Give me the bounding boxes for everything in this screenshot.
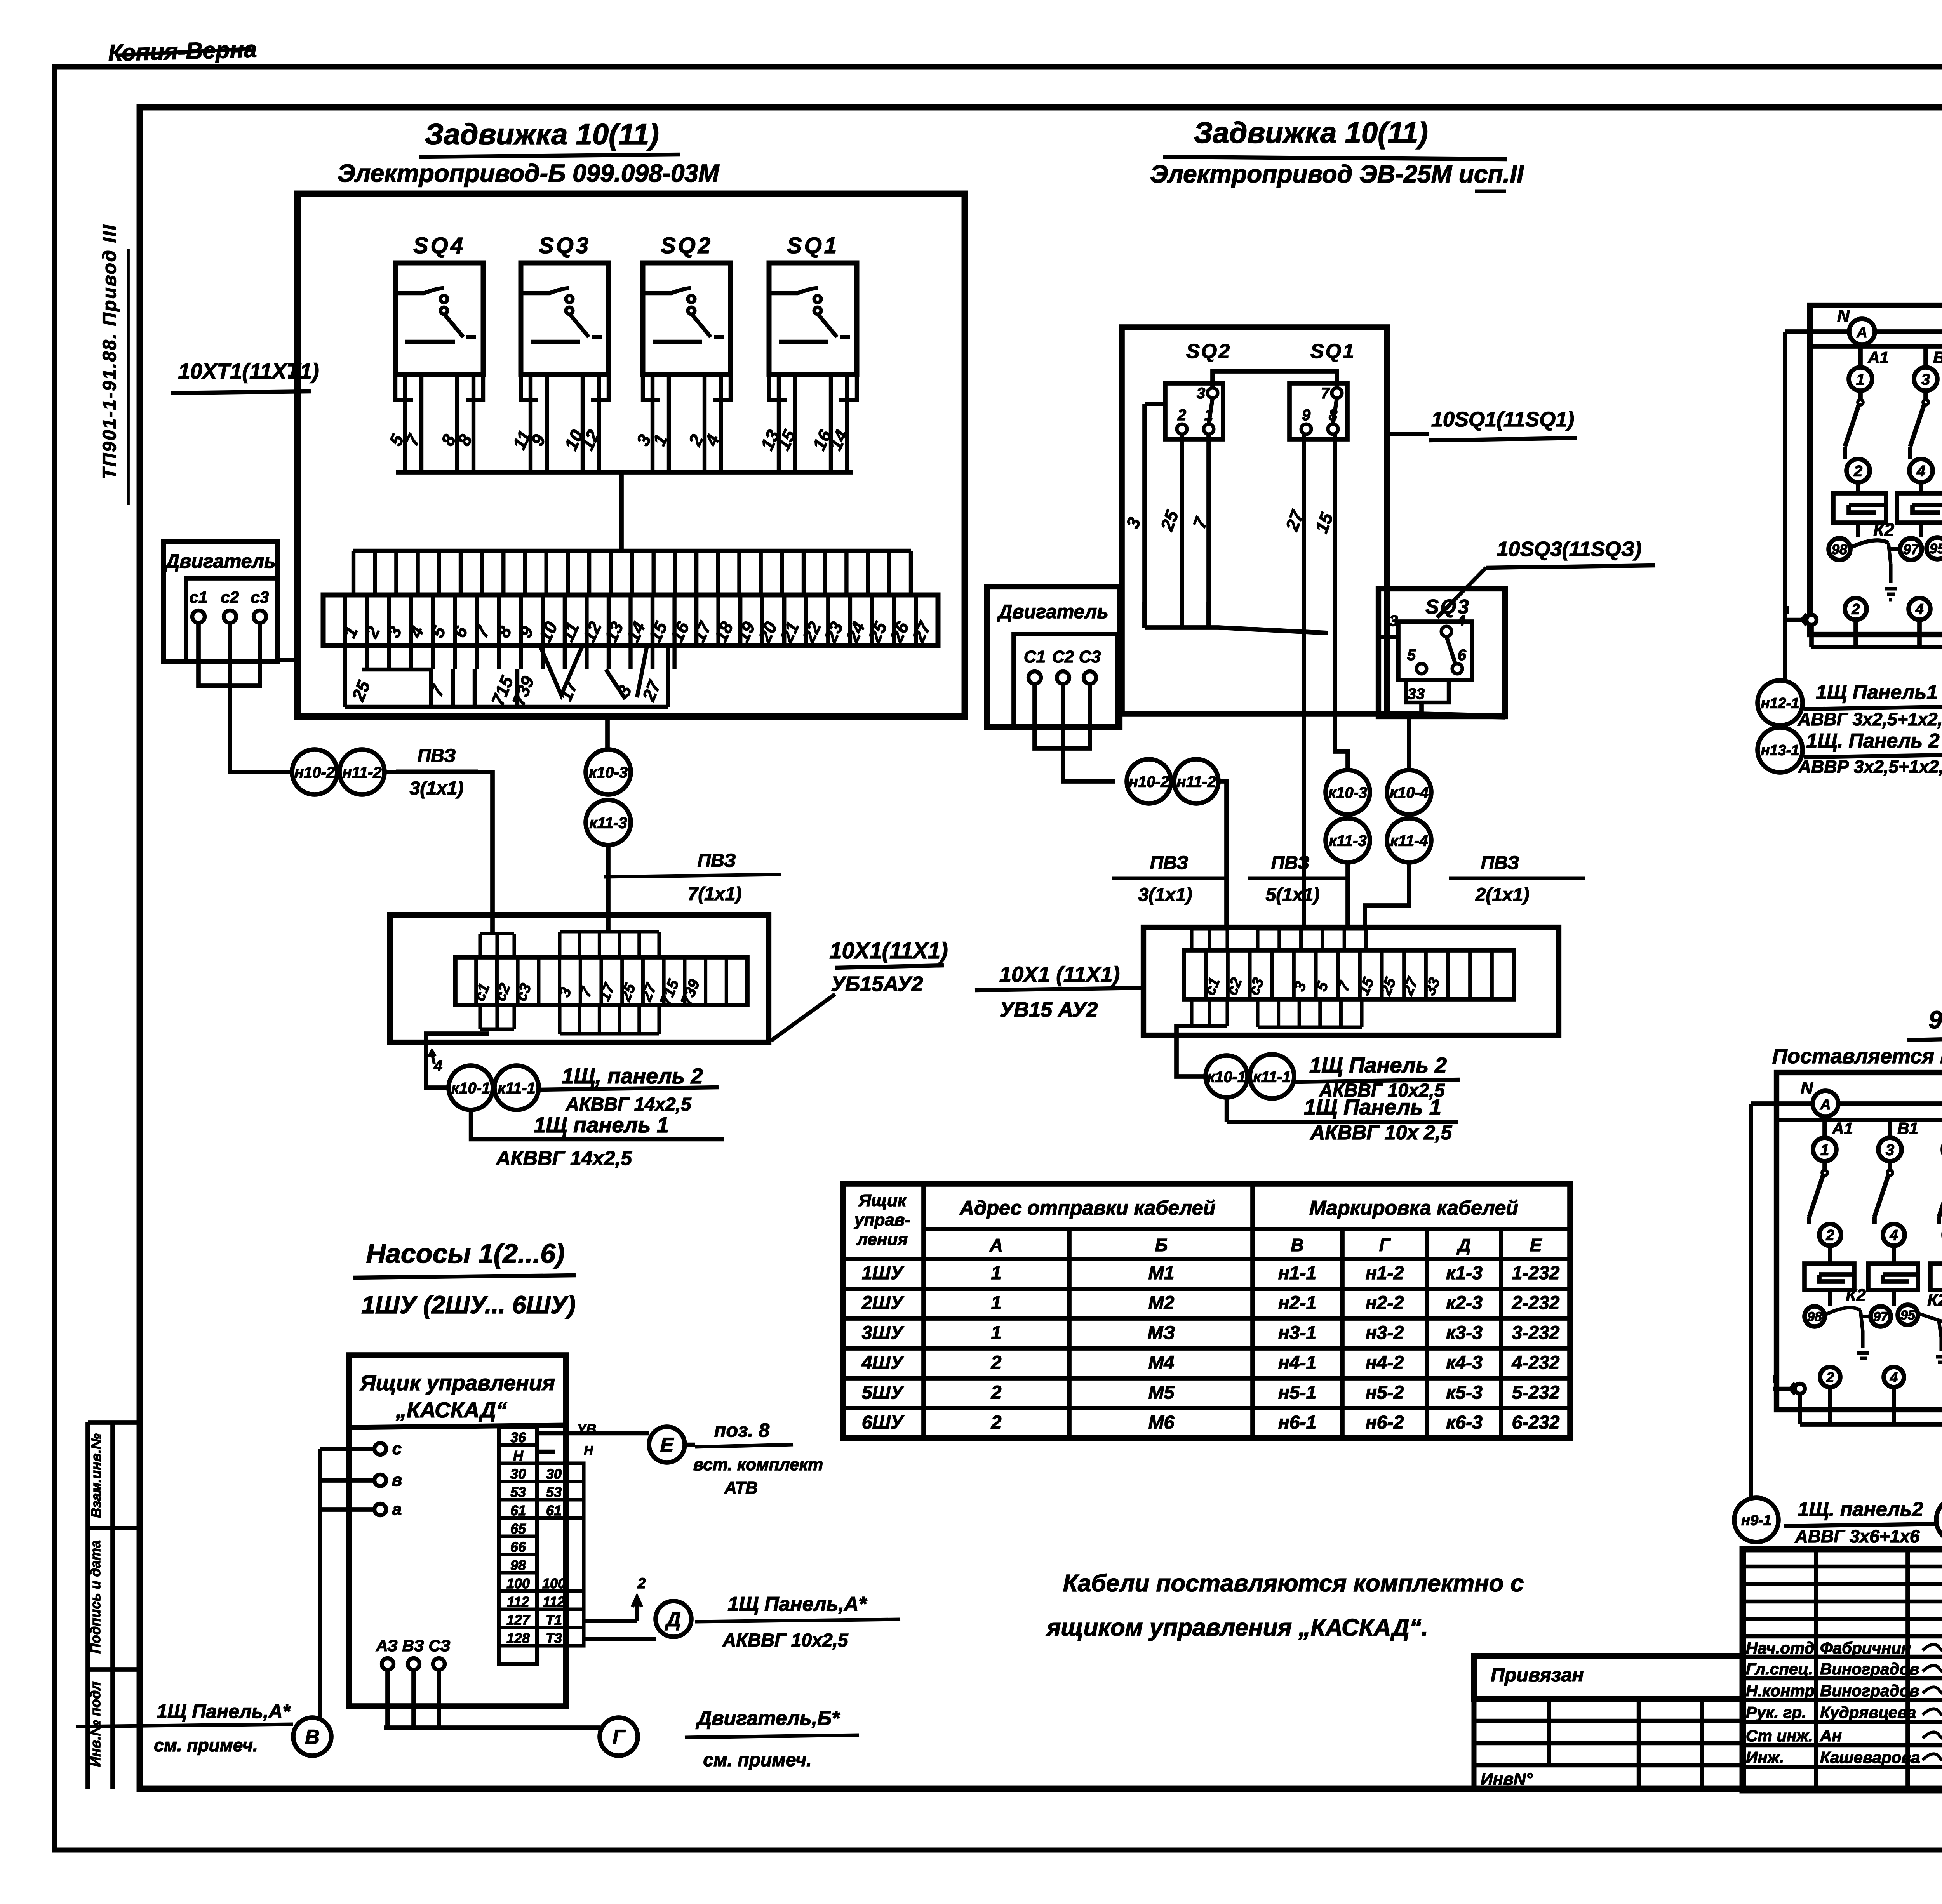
svg-text:2: 2	[1826, 1369, 1834, 1385]
motor wires c1 c2 c3	[198, 623, 292, 772]
N bus wire	[1785, 332, 1942, 414]
ground symbol	[1785, 606, 1807, 625]
terminal column inside КАСКАД	[499, 1427, 537, 1664]
upper stubs A (s2)	[1192, 929, 1227, 950]
svg-text:95: 95	[1900, 1308, 1916, 1323]
svg-text:53: 53	[546, 1484, 562, 1500]
svg-text:SQ1: SQ1	[787, 233, 839, 258]
svg-text:112: 112	[543, 1594, 565, 1610]
svg-text:Д: Д	[1456, 1235, 1470, 1255]
svg-text:н5-1: н5-1	[1278, 1382, 1316, 1403]
svg-text:1Щ, панель 2: 1Щ, панель 2	[562, 1064, 703, 1088]
svg-text:100: 100	[542, 1575, 566, 1591]
svg-text:9 КМ1: 9 КМ1	[1928, 1006, 1942, 1034]
svg-text:3: 3	[1921, 371, 1930, 388]
cable marker к11-1 (s2)	[1250, 1054, 1294, 1099]
svg-text:3ШУ: 3ШУ	[862, 1323, 905, 1343]
svg-text:с1: с1	[190, 588, 208, 606]
terminal 3 (9)	[1878, 1138, 1902, 1161]
svg-text:10Х1 (11Х1): 10Х1 (11Х1)	[999, 962, 1120, 986]
terminal 1 phase А1	[1849, 367, 1872, 391]
svg-text:к11-1: к11-1	[1253, 1068, 1291, 1085]
control box КАСКАД	[349, 1355, 566, 1706]
svg-text:к3-3: к3-3	[1446, 1323, 1483, 1343]
strip inside 10Х1 (section 1)	[455, 957, 747, 1007]
wire N down to н12-1	[1783, 332, 1787, 680]
svg-text:В: В	[305, 1726, 320, 1749]
svg-text:5(1х1): 5(1х1)	[1266, 885, 1320, 905]
svg-text:с: с	[392, 1439, 402, 1458]
svg-text:Н: Н	[584, 1443, 593, 1457]
svg-text:10Х1(11Х1): 10Х1(11Х1)	[829, 938, 948, 963]
svg-text:7(1х1): 7(1х1)	[688, 884, 742, 904]
limit switch SQ4	[385, 233, 483, 472]
svg-text:Н.контр.: Н.контр.	[1746, 1681, 1819, 1700]
svg-text:1Щ Панель 2: 1Щ Панель 2	[1309, 1053, 1447, 1077]
svg-text:1Щ Панель 1: 1Щ Панель 1	[1304, 1095, 1441, 1119]
svg-text:н10-2: н10-2	[294, 764, 335, 781]
cable marker к10-1 (s2)	[1206, 1055, 1248, 1097]
bridge wire SQ2 pin3 to SQ1 pin7	[1213, 371, 1337, 388]
svg-text:В: В	[1291, 1235, 1303, 1255]
contactor main contacts (slashes)	[1845, 391, 1860, 459]
svg-text:2(1х1): 2(1х1)	[1475, 885, 1530, 905]
svg-text:Ящик: Ящик	[858, 1191, 907, 1210]
cable marker н11-2	[339, 749, 385, 795]
svg-text:н4-1: н4-1	[1278, 1353, 1316, 1373]
terminal 4 bottom (9)	[1884, 1367, 1904, 1387]
svg-text:н11-2: н11-2	[342, 764, 381, 781]
wires SQ pins down	[1145, 404, 1209, 628]
wires to к circles and strip	[1304, 434, 1348, 929]
wire to В	[318, 1449, 322, 1718]
svg-text:Фабричнин: Фабричнин	[1820, 1639, 1911, 1657]
svg-text:Т1: Т1	[546, 1612, 562, 1628]
svg-text:АВВГ 3х6+1х6: АВВГ 3х6+1х6	[1794, 1526, 1919, 1546]
lower stubs A (s2)	[1192, 999, 1227, 1026]
terminal 1 (9)	[1813, 1138, 1836, 1161]
svg-text:1ШУ: 1ШУ	[862, 1263, 905, 1283]
svg-text:2: 2	[637, 1575, 646, 1592]
svg-text:к11-3: к11-3	[589, 814, 627, 831]
svg-text:2-232: 2-232	[1512, 1293, 1560, 1313]
cable marker н10-2	[292, 749, 337, 795]
svg-text:к10-1: к10-1	[451, 1080, 490, 1097]
svg-text:Адрес отправки кабелей: Адрес отправки кабелей	[959, 1197, 1216, 1219]
svg-text:SQ4: SQ4	[413, 233, 465, 258]
svg-text:3(1х1): 3(1х1)	[1138, 885, 1192, 905]
svg-text:4-232: 4-232	[1512, 1353, 1560, 1373]
svg-text:н3-2: н3-2	[1366, 1323, 1404, 1343]
limit switch SQ1	[757, 233, 857, 472]
margin column boxes	[85, 1422, 90, 1789]
phase bus 9	[1777, 1120, 1942, 1138]
svg-text:АВВР 3х2,5+1х2,5: АВВР 3х2,5+1х2,5	[1798, 756, 1942, 777]
cable marker к10-3	[586, 749, 631, 795]
cable marker н9-1	[1734, 1498, 1778, 1542]
svg-text:н4-2: н4-2	[1366, 1353, 1404, 1373]
svg-text:к11-4: к11-4	[1390, 832, 1428, 849]
lower stubs A	[480, 1005, 514, 1029]
svg-text:36: 36	[510, 1429, 526, 1445]
wire bus under SQ units	[396, 470, 853, 475]
svg-text:С2: С2	[1052, 647, 1074, 666]
enclosure box ЭВ-25М	[1122, 327, 1387, 714]
svg-text:Кабели поставляются комплект: Кабели поставляются комплектно с	[1063, 1570, 1524, 1597]
limit switch SQ2 (section 2)	[1165, 340, 1231, 439]
svg-text:SQ1: SQ1	[1310, 340, 1356, 363]
cable marker к11-1	[494, 1066, 539, 1110]
svg-text:61: 61	[510, 1502, 526, 1518]
lower stubs B (s2)	[1258, 999, 1362, 1027]
wire strip to к10-1 (s2)	[1176, 1026, 1206, 1076]
svg-text:6ШУ: 6ШУ	[862, 1412, 905, 1433]
svg-text:3(1х1): 3(1х1)	[410, 778, 464, 799]
svg-text:см. примеч.: см. примеч.	[154, 1735, 258, 1755]
cable marker к11-4 (s2)	[1387, 818, 1431, 862]
svg-text:к10-1: к10-1	[1207, 1068, 1246, 1085]
svg-text:Г: Г	[613, 1726, 626, 1749]
svg-text:10SQ1(11SQ1): 10SQ1(11SQ1)	[1431, 408, 1574, 431]
svg-text:1: 1	[991, 1323, 1002, 1343]
wires н/к circles to strip (s2)	[1218, 781, 1409, 929]
svg-text:65: 65	[510, 1521, 526, 1537]
svg-text:Подпись и дата: Подпись и дата	[87, 1540, 103, 1654]
svg-text:Инв.№ подл: Инв.№ подл	[87, 1681, 103, 1767]
underline of code	[127, 249, 130, 505]
svg-text:3: 3	[1197, 385, 1205, 402]
svg-text:1: 1	[991, 1293, 1002, 1313]
svg-text:к10-3: к10-3	[1328, 784, 1367, 801]
svg-text:поз. 8: поз. 8	[714, 1419, 769, 1441]
svg-text:1Щ Панель,А*: 1Щ Панель,А*	[727, 1593, 867, 1615]
К2 actuator dash	[1885, 543, 1897, 600]
wire motor box to enclosure	[277, 658, 298, 662]
svg-text:ТП901-1-91.88. Привод III: ТП901-1-91.88. Привод III	[99, 224, 120, 479]
svg-text:н1-2: н1-2	[1366, 1263, 1404, 1283]
motor wires (section 2)	[1035, 684, 1115, 781]
svg-text:с3: с3	[251, 588, 269, 606]
svg-text:1ШУ (2ШУ... 6ШУ): 1ШУ (2ШУ... 6ШУ)	[361, 1291, 576, 1319]
svg-text:А: А	[1820, 1097, 1831, 1113]
svg-text:вст. комплект: вст. комплект	[693, 1455, 823, 1474]
svg-text:А1: А1	[1867, 348, 1889, 367]
leader 10SQ3	[1437, 568, 1486, 617]
wire box to к10-3	[605, 716, 610, 749]
svg-text:SQ2: SQ2	[661, 233, 713, 258]
svg-text:128: 128	[506, 1630, 530, 1646]
title block	[1743, 1549, 1942, 1790]
bottom bus	[1811, 620, 1942, 687]
terminal box 10Х1(11Х1) (section 2)	[1143, 927, 1559, 1035]
cable routing table	[843, 1184, 1570, 1438]
svg-text:1Щ панель 1: 1Щ панель 1	[534, 1113, 669, 1137]
contactor enclosure 9КМ1	[1777, 1073, 1942, 1410]
svg-text:к10-3: к10-3	[589, 764, 628, 781]
terminal 3 phase В1	[1914, 367, 1937, 391]
svg-text:Е: Е	[1530, 1235, 1542, 1255]
svg-text:Д: Д	[665, 1608, 681, 1631]
svg-text:4ШУ: 4ШУ	[861, 1353, 905, 1373]
svg-text:97: 97	[1873, 1309, 1889, 1324]
svg-text:с2: с2	[221, 588, 239, 606]
svg-text:3-232: 3-232	[1512, 1323, 1560, 1343]
cable marker Е	[649, 1427, 685, 1462]
svg-text:В1: В1	[1933, 348, 1942, 367]
svg-text:5ШУ: 5ШУ	[862, 1382, 905, 1403]
svg-text:к11-1: к11-1	[498, 1080, 535, 1097]
cable marker В	[293, 1718, 331, 1756]
svg-text:53: 53	[510, 1484, 526, 1500]
svg-text:к6-3: к6-3	[1446, 1412, 1483, 1433]
terminal 2 bottom (9)	[1820, 1367, 1840, 1387]
limit switch SQ2	[633, 233, 731, 472]
svg-text:30: 30	[510, 1466, 526, 1482]
svg-text:1Щ Панель,А*: 1Щ Панель,А*	[157, 1701, 291, 1722]
svg-text:ПВЗ: ПВЗ	[1481, 853, 1519, 873]
svg-text:ИнвN°: ИнвN°	[1481, 1770, 1533, 1789]
terminal box 10Х1(11Х1) УБ15АУ2 (section 1)	[390, 915, 769, 1042]
svg-text:Н: Н	[513, 1448, 524, 1464]
arrow 2	[632, 1597, 642, 1621]
svg-text:SQ3: SQ3	[539, 233, 591, 258]
svg-text:Взам.инв.№: Взам.инв.№	[88, 1433, 104, 1518]
svg-text:Поставляется комплектно с насо: Поставляется комплектно с насосом	[1772, 1045, 1942, 1068]
svg-text:к4-3: к4-3	[1446, 1353, 1483, 1373]
cable marker к10-3 (s2)	[1326, 770, 1370, 814]
svg-text:н9-1: н9-1	[1741, 1513, 1771, 1529]
svg-text:Нач.отд.: Нач.отд.	[1746, 1639, 1819, 1657]
svg-text:к11-3: к11-3	[1329, 832, 1366, 849]
svg-text:М2: М2	[1148, 1293, 1175, 1313]
svg-text:2: 2	[991, 1353, 1002, 1373]
svg-text:Кашеварова: Кашеварова	[1820, 1748, 1920, 1767]
svg-text:112: 112	[507, 1594, 529, 1610]
underline 10ХТ1	[171, 391, 311, 393]
svg-text:Ст инж.: Ст инж.	[1746, 1727, 1813, 1745]
svg-text:3: 3	[1886, 1141, 1894, 1158]
cable marker н10-2 (s2)	[1127, 759, 1171, 803]
motor box Двигатель (section 2)	[987, 587, 1120, 727]
wire N to н9-1	[1749, 1104, 1753, 1498]
svg-text:10SQ3(11SQЗ): 10SQ3(11SQЗ)	[1497, 537, 1642, 561]
lower stubs B	[560, 1005, 659, 1034]
svg-text:АВВГ 3х2,5+1х2,5: АВВГ 3х2,5+1х2,5	[1798, 709, 1942, 729]
leader to box	[288, 375, 298, 379]
svg-text:Задвижка 10(11): Задвижка 10(11)	[1194, 117, 1428, 150]
terminal strip lower connections	[345, 645, 675, 708]
svg-text:н13-1: н13-1	[1761, 742, 1799, 759]
svg-text:А1: А1	[1832, 1119, 1853, 1137]
wire к11-3 to strip	[606, 845, 611, 932]
wire н11-2 to strip	[385, 772, 492, 934]
N bus wire 9	[1751, 1104, 1942, 1175]
svg-text:С1: С1	[1024, 647, 1046, 666]
svg-text:6-232: 6-232	[1512, 1412, 1560, 1433]
svg-text:30: 30	[546, 1466, 562, 1482]
svg-text:1Щ Панель1: 1Щ Панель1	[1816, 681, 1938, 704]
svg-text:2: 2	[1825, 1228, 1834, 1244]
svg-text:Т3: Т3	[546, 1630, 562, 1646]
svg-text:Двигатель: Двигатель	[997, 601, 1108, 622]
svg-text:Е: Е	[660, 1434, 674, 1457]
wire to Г	[384, 1725, 600, 1730]
svg-text:2ШУ: 2ШУ	[861, 1293, 905, 1313]
offset terminal column right	[537, 1463, 584, 1646]
svg-text:Б: Б	[1155, 1235, 1168, 1255]
svg-text:Виноградов: Виноградов	[1820, 1681, 1919, 1700]
svg-text:н11-2: н11-2	[1176, 773, 1216, 790]
svg-text:Гл.спец.: Гл.спец.	[1746, 1660, 1813, 1678]
svg-text:н12-1: н12-1	[1761, 696, 1799, 712]
svg-text:2: 2	[1177, 407, 1186, 424]
svg-text:100: 100	[506, 1575, 530, 1591]
svg-text:к5-3: к5-3	[1446, 1382, 1483, 1403]
limit switch SQ3 (section 2)	[1378, 589, 1505, 716]
wires 100..Т3 to Д	[584, 1621, 656, 1639]
wire SQ3 pin3 left and 33 down	[1380, 637, 1422, 716]
svg-text:К2: К2	[1846, 1286, 1866, 1305]
terminal 2 mid	[1846, 459, 1870, 482]
bottom bus (9)	[1800, 1387, 1942, 1498]
svg-text:2: 2	[991, 1412, 1002, 1433]
svg-text:М1: М1	[1148, 1263, 1175, 1283]
terminal 2 mid (9)	[1819, 1224, 1841, 1246]
svg-text:Кудрявцева: Кудрявцева	[1820, 1703, 1916, 1721]
svg-text:9: 9	[1302, 407, 1311, 424]
svg-text:61: 61	[546, 1502, 562, 1518]
cable marker Д	[656, 1601, 691, 1637]
svg-text:Виноградов: Виноградов	[1820, 1660, 1919, 1678]
svg-text:см. примеч.: см. примеч.	[703, 1750, 811, 1770]
svg-text:к10-4: к10-4	[1390, 784, 1429, 801]
svg-text:N: N	[1837, 306, 1850, 325]
svg-text:Ящик управления: Ящик управления	[359, 1370, 555, 1395]
svg-text:к2-3: к2-3	[1446, 1293, 1483, 1313]
svg-text:5-232: 5-232	[1512, 1382, 1560, 1403]
svg-text:ПВЗ: ПВЗ	[418, 746, 456, 766]
left terminals с в а	[374, 1443, 386, 1455]
svg-text:98: 98	[1807, 1309, 1822, 1324]
svg-text:6: 6	[1458, 647, 1467, 664]
cable marker н13-1	[1758, 727, 1803, 772]
svg-text:УВ15 АУ2: УВ15 АУ2	[1000, 998, 1098, 1021]
svg-text:М4: М4	[1148, 1353, 1175, 1373]
motor box Двигатель (section 1)	[164, 542, 277, 662]
inner stub comb (section 2 box)	[1145, 602, 1328, 633]
terminal 2 bottom	[1845, 598, 1867, 620]
terminal 4 bottom	[1909, 598, 1930, 620]
cable marker н12-1	[1758, 680, 1803, 725]
svg-text:Двигатель: Двигатель	[164, 550, 276, 572]
ground symbol (9)	[1773, 1375, 1795, 1394]
terminal 4 mid	[1909, 459, 1933, 482]
leader 10SQ1	[1387, 432, 1429, 436]
svg-text:ПВЗ: ПВЗ	[1271, 853, 1310, 873]
svg-text:ПВЗ: ПВЗ	[698, 850, 736, 871]
terminal strip upper row	[353, 551, 911, 595]
svg-text:Инж.: Инж.	[1746, 1748, 1784, 1767]
svg-text:1: 1	[991, 1263, 1002, 1283]
svg-text:66: 66	[510, 1539, 526, 1555]
svg-text:к1-3: к1-3	[1446, 1263, 1483, 1283]
svg-text:н6-1: н6-1	[1278, 1412, 1316, 1433]
svg-text:Двигатель,Б*: Двигатель,Б*	[696, 1707, 840, 1730]
svg-text:97: 97	[1903, 541, 1919, 557]
svg-text:10ХТ1(11ХТ1): 10ХТ1(11ХТ1)	[178, 359, 319, 383]
svg-text:Насосы 1(2...6): Насосы 1(2...6)	[366, 1238, 564, 1269]
svg-text:АТВ: АТВ	[724, 1478, 758, 1497]
svg-text:К2: К2	[1873, 520, 1894, 540]
svg-text:127: 127	[506, 1612, 531, 1628]
svg-text:С3: С3	[1079, 647, 1101, 666]
cable marker к11-3	[586, 800, 631, 845]
terminal А (N)	[1849, 319, 1875, 344]
cable marker н11-2 (s2)	[1174, 759, 1218, 803]
svg-text:ящиком управления „КАСКАД“.: ящиком управления „КАСКАД“.	[1046, 1614, 1428, 1641]
svg-text:N: N	[1801, 1078, 1813, 1097]
svg-text:в: в	[392, 1471, 402, 1490]
svg-text:н10-2: н10-2	[1129, 773, 1169, 790]
svg-text:ления: ления	[856, 1230, 908, 1249]
terminal 4 mid (9)	[1883, 1224, 1905, 1246]
svg-text:Рук. гр.: Рук. гр.	[1746, 1703, 1806, 1721]
wire 36 to Е	[537, 1433, 649, 1452]
svg-text:33: 33	[1408, 685, 1425, 702]
svg-text:АКВВГ 10х2,5: АКВВГ 10х2,5	[722, 1630, 848, 1651]
svg-text:УБ15АУ2: УБ15АУ2	[831, 972, 923, 996]
wire strip to к10-1	[426, 1034, 489, 1088]
svg-text:„КАСКАД“: „КАСКАД“	[395, 1398, 507, 1422]
svg-text:ПВЗ: ПВЗ	[1150, 853, 1189, 873]
svg-text:К2: К2	[1927, 1290, 1942, 1309]
terminal strip 1..27	[323, 595, 938, 645]
stamp Копия Верна (struck)	[108, 36, 257, 66]
upper stubs B	[560, 932, 659, 957]
svg-text:АКВВГ 10х 2,5: АКВВГ 10х 2,5	[1310, 1122, 1453, 1144]
wires mid to thermal	[1856, 482, 1860, 493]
svg-text:2: 2	[991, 1382, 1002, 1403]
svg-text:Г: Г	[1379, 1235, 1391, 1255]
limit switch SQ1 (section 2)	[1289, 340, 1356, 439]
svg-text:1-232: 1-232	[1512, 1263, 1560, 1283]
svg-text:н6-2: н6-2	[1366, 1412, 1404, 1433]
contacts (slashes) 9	[1809, 1161, 1825, 1224]
cable marker к10-1	[449, 1066, 493, 1110]
svg-text:4: 4	[1916, 463, 1925, 480]
svg-text:5: 5	[1407, 647, 1416, 664]
svg-text:М5: М5	[1148, 1382, 1175, 1403]
svg-text:4: 4	[1890, 1369, 1898, 1385]
svg-text:SQ2: SQ2	[1186, 340, 1231, 363]
strip inside 10Х1 (s2)	[1184, 950, 1514, 999]
svg-text:управ-: управ-	[854, 1210, 910, 1229]
wire to terminal strip	[619, 472, 624, 551]
svg-text:1: 1	[1820, 1141, 1829, 1158]
svg-text:1: 1	[1856, 371, 1865, 388]
svg-text:Электропривод ЭВ-25М исп.II: Электропривод ЭВ-25М исп.II	[1150, 160, 1524, 188]
thermal elements КК	[1833, 493, 1886, 523]
upper stubs B (s2)	[1258, 929, 1366, 950]
phase bus wire	[1810, 346, 1942, 367]
svg-text:3: 3	[1389, 612, 1398, 629]
svg-text:АЗ ВЗ СЗ: АЗ ВЗ СЗ	[376, 1636, 451, 1655]
svg-text:98: 98	[1832, 541, 1847, 557]
svg-text:1Щ. Панель 2: 1Щ. Панель 2	[1806, 730, 1939, 752]
limit switch SQ3	[509, 233, 609, 472]
wire to к10-4	[1407, 716, 1411, 770]
svg-text:н1-1: н1-1	[1278, 1263, 1316, 1283]
